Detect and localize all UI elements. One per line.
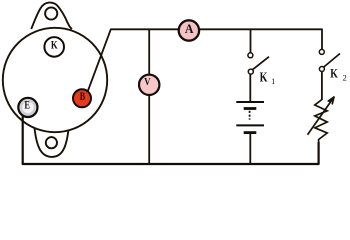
svg-text:B: B (80, 91, 86, 103)
rheostat arrow shaft (308, 97, 335, 135)
terminal B (73, 89, 91, 107)
battery plate long 1 (236, 101, 264, 103)
svg-text:V: V (144, 76, 150, 88)
battery plate short 2 (244, 131, 257, 134)
rheostat arrowhead (328, 97, 334, 104)
svg-text:2: 2 (342, 72, 346, 82)
wire K1 to battery (249, 74, 251, 101)
switch K1 blade (253, 57, 269, 70)
ammeter A (179, 20, 199, 40)
battery plate short 1 (244, 107, 257, 110)
voltmeter V (139, 75, 159, 95)
terminal E (18, 98, 37, 117)
svg-text:A: A (185, 21, 194, 36)
bottom mounting tab (34, 125, 69, 157)
terminal K (44, 37, 64, 57)
svg-text:K: K (51, 37, 58, 51)
wire K1 branch top (250, 29, 252, 52)
rheostat zigzag (315, 100, 327, 143)
wire K2 to rheostat (321, 72, 323, 101)
wire V branch (148, 29, 150, 164)
battery plate long 2 (236, 124, 264, 126)
top mounting tab (31, 3, 72, 30)
switch K1 pivot (248, 69, 253, 74)
top tab hole (45, 7, 57, 19)
svg-text:1: 1 (271, 77, 275, 86)
wire E branch + bottom rail + rheostat riser (23, 114, 319, 165)
svg-text:K: K (330, 66, 338, 81)
battery dotted cells (249, 111, 251, 120)
wire B to top rail, top rail, drop to K2 (86, 29, 322, 96)
wire battery to bottom rail (249, 133, 251, 164)
device body circle (3, 28, 107, 132)
switch K1 upper contact (248, 53, 253, 58)
svg-text:E: E (24, 97, 30, 111)
switch K2 blade (324, 54, 340, 68)
switch K2 upper contact (319, 49, 324, 54)
svg-text:K: K (260, 70, 268, 85)
switch K2 pivot (319, 67, 324, 72)
bottom tab hole (46, 137, 57, 148)
